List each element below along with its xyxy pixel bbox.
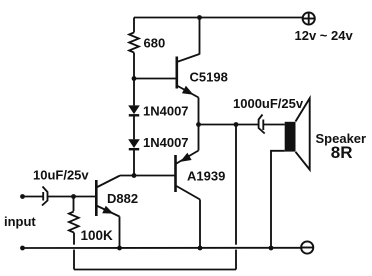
capacitor C1 10uF/25v — [42, 187, 48, 206]
wire diode chain lower — [133, 149, 135, 175]
wire diode chain upper — [133, 79, 135, 106]
node bootstrap junction — [234, 122, 239, 127]
svg-text:100K: 100K — [81, 228, 114, 243]
svg-text:D882: D882 — [107, 191, 138, 206]
power terminal +V — [303, 12, 315, 24]
wire top rail — [134, 17, 303, 19]
wire emitter D882 — [119, 217, 121, 249]
wire bootstrap vertical upper — [235, 125, 237, 245]
node collector A1939 / rail junction — [198, 246, 203, 251]
wire bootstrap lower rail — [74, 269, 236, 271]
wire bottom rail — [23, 247, 302, 249]
node emitter D882 / rail junction — [117, 246, 122, 251]
wire collector A1939 — [199, 200, 201, 249]
ground terminal — [301, 241, 313, 253]
transistor Q3 A1939 — [176, 151, 201, 200]
svg-text:input: input — [4, 214, 36, 229]
node base junction Q1 — [132, 76, 137, 81]
svg-text:680: 680 — [144, 36, 166, 51]
svg-text:1000uF/25v: 1000uF/25v — [233, 96, 304, 111]
svg-text:A1939: A1939 — [187, 169, 225, 184]
node speaker / ground rail junction — [269, 246, 274, 251]
svg-text:1N4007: 1N4007 — [143, 135, 189, 150]
resistor R1 680 — [129, 18, 139, 79]
svg-text:1N4007: 1N4007 — [143, 104, 189, 119]
speaker LS1 — [285, 98, 310, 169]
svg-text:C5198: C5198 — [190, 70, 228, 85]
wire base C5198 — [134, 78, 176, 80]
wire capacitor to base Q2 — [48, 196, 96, 198]
wire bootstrap vertical lower — [235, 250, 237, 270]
wire input — [23, 196, 44, 198]
diode D2 1N4007 — [128, 139, 140, 149]
wire diode chain middle — [133, 115, 135, 139]
wire speaker return — [271, 151, 285, 248]
wire collector C5198 — [199, 18, 201, 55]
svg-text:12v ~ 24v: 12v ~ 24v — [295, 28, 354, 43]
input terminal lower — [20, 246, 25, 251]
wire driver base rail — [120, 175, 176, 177]
node 100K junction — [71, 194, 76, 199]
wire 100K lower lead below rail — [73, 250, 75, 270]
svg-text:8R: 8R — [331, 143, 353, 162]
svg-text:10uF/25v: 10uF/25v — [33, 168, 89, 183]
transistor Q2 D882 — [96, 176, 120, 217]
node junction top rail / Q1 collector — [197, 15, 202, 20]
node output junction — [196, 122, 201, 127]
capacitor C2 1000uF/25v — [259, 115, 285, 134]
node diode / base junction — [132, 173, 137, 178]
resistor R2 100K — [69, 197, 79, 245]
diode D1 1N4007 — [128, 105, 140, 115]
transistor Q1 C5198 — [177, 54, 200, 98]
input terminal upper — [20, 194, 25, 199]
wire emitter C5198 — [198, 98, 200, 125]
wire output to capacitor — [199, 124, 259, 126]
wire emitter A1939 — [198, 125, 200, 151]
